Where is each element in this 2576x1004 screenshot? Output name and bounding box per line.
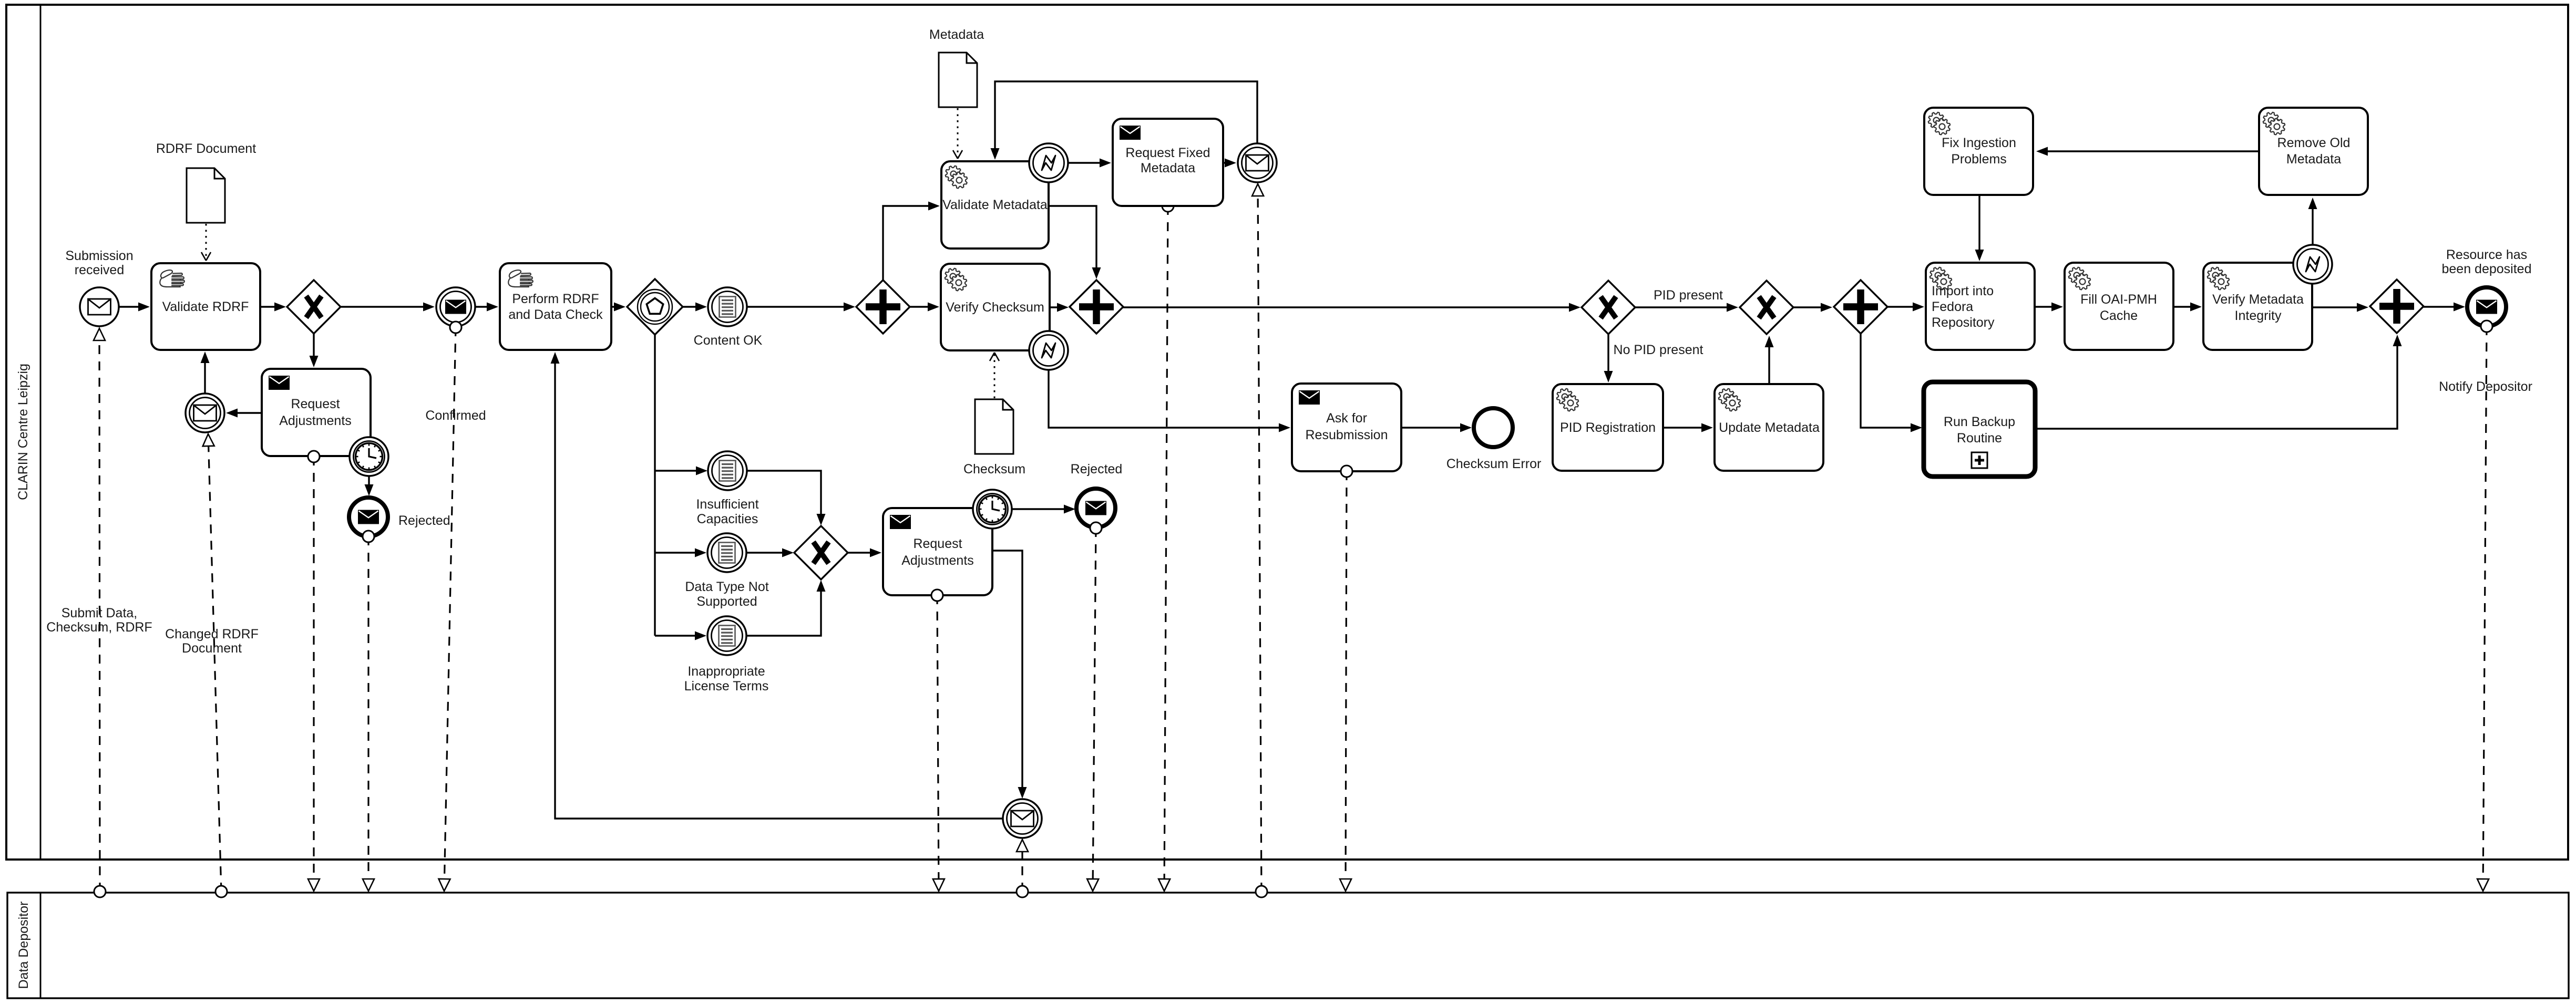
svg-text:PID present: PID present <box>1654 288 1723 303</box>
svg-text:Resource has: Resource has <box>2446 247 2527 262</box>
svg-text:No PID present: No PID present <box>1614 343 1703 357</box>
svg-text:Integrity: Integrity <box>2235 308 2282 323</box>
svg-text:CLARIN Centre Leipzig: CLARIN Centre Leipzig <box>16 364 30 500</box>
svg-text:Inappropriate: Inappropriate <box>687 664 765 679</box>
svg-text:Adjustments: Adjustments <box>279 413 352 428</box>
svg-text:Request: Request <box>913 536 962 551</box>
svg-text:License Terms: License Terms <box>684 679 769 694</box>
svg-text:been deposited: been deposited <box>2442 262 2532 276</box>
svg-text:Metadata: Metadata <box>1141 161 1195 175</box>
svg-text:Metadata: Metadata <box>929 27 984 42</box>
svg-text:Fix Ingestion: Fix Ingestion <box>1942 136 2016 150</box>
svg-text:Checksum Error: Checksum Error <box>1446 457 1542 471</box>
svg-text:Resubmission: Resubmission <box>1305 428 1388 442</box>
svg-text:Verify Checksum: Verify Checksum <box>946 300 1044 315</box>
svg-text:Remove Old: Remove Old <box>2277 136 2351 150</box>
svg-text:Rejected: Rejected <box>398 513 450 528</box>
svg-text:Supported: Supported <box>696 594 757 609</box>
svg-text:PID Registration: PID Registration <box>1560 420 1656 435</box>
svg-text:Submit Data,: Submit Data, <box>61 606 138 620</box>
svg-text:Import into: Import into <box>1932 284 1994 298</box>
svg-text:Insufficient: Insufficient <box>696 497 758 512</box>
svg-text:Problems: Problems <box>1951 152 2007 167</box>
svg-text:Checksum: Checksum <box>963 462 1025 477</box>
svg-text:Request: Request <box>291 397 340 411</box>
svg-text:Metadata: Metadata <box>2286 152 2341 167</box>
svg-text:Verify Metadata: Verify Metadata <box>2212 292 2304 307</box>
svg-text:Adjustments: Adjustments <box>901 553 974 568</box>
svg-text:Submission: Submission <box>65 249 133 263</box>
svg-text:Perform RDRF: Perform RDRF <box>512 292 599 306</box>
svg-text:Validate Metadata: Validate Metadata <box>942 198 1048 212</box>
svg-text:Rejected: Rejected <box>1071 462 1123 477</box>
svg-text:Data Type Not: Data Type Not <box>685 579 768 594</box>
svg-text:Data Depositor: Data Depositor <box>16 902 31 989</box>
svg-text:Content OK: Content OK <box>694 333 763 348</box>
svg-text:Changed RDRF: Changed RDRF <box>165 627 259 641</box>
svg-text:Capacities: Capacities <box>697 512 758 526</box>
svg-text:Ask for: Ask for <box>1326 411 1367 426</box>
svg-text:RDRF Document: RDRF Document <box>156 141 256 156</box>
svg-text:Update Metadata: Update Metadata <box>1719 420 1820 435</box>
svg-text:Routine: Routine <box>1957 431 2002 446</box>
svg-text:received: received <box>75 263 125 277</box>
svg-text:Fedora: Fedora <box>1932 299 1973 314</box>
svg-text:Validate RDRF: Validate RDRF <box>162 299 249 314</box>
svg-text:Request Fixed: Request Fixed <box>1125 146 1210 160</box>
svg-text:Repository: Repository <box>1932 315 1995 330</box>
svg-text:Document: Document <box>182 641 242 656</box>
svg-text:Run Backup: Run Backup <box>1944 415 2015 429</box>
svg-text:Confirmed: Confirmed <box>425 408 486 423</box>
svg-text:Cache: Cache <box>2100 308 2138 323</box>
svg-text:Fill OAI-PMH: Fill OAI-PMH <box>2080 292 2157 307</box>
svg-text:and Data Check: and Data Check <box>508 307 603 322</box>
svg-text:Notify Depositor: Notify Depositor <box>2439 379 2532 394</box>
svg-text:Checksum, RDRF: Checksum, RDRF <box>46 620 152 635</box>
